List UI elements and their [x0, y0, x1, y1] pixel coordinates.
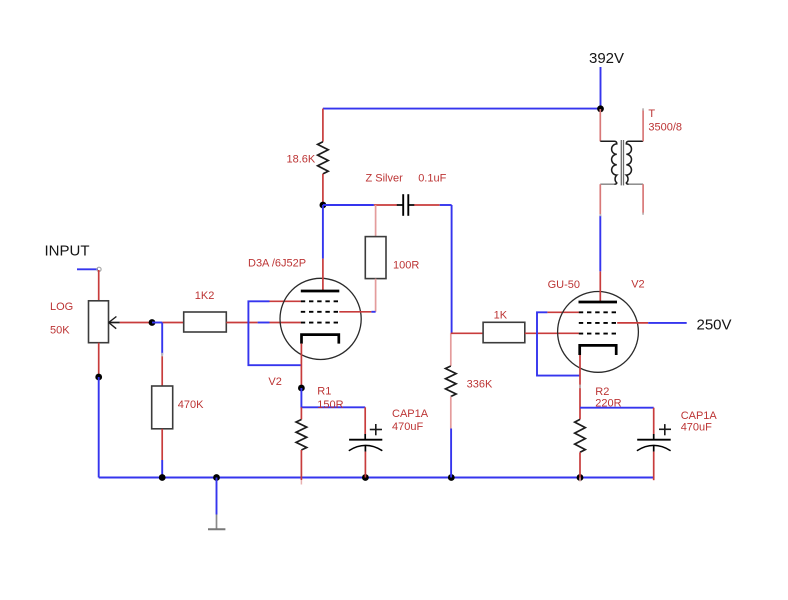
wire 100R top lead (pink) — [375, 205, 377, 237]
wire transformer primary top lead (red) — [599, 109, 601, 141]
tube V2 GU-50 envelope — [558, 292, 639, 373]
wire transformer secondary bottom lead (red) — [642, 184, 644, 214]
wire grid1 lead tube2 (red) — [547, 311, 579, 313]
capacitor CAP1A 470uF stage1 plates — [349, 439, 382, 441]
svg-text:1K: 1K — [494, 309, 508, 321]
tube V2 GU-50 feedback loop wire (blue) — [537, 312, 580, 375]
wire 1K right lead to grid (red) — [525, 332, 579, 334]
wire node A to cap (blue then red) — [323, 204, 374, 206]
wire right coupling drop (blue) — [451, 205, 453, 333]
tube V2 GU-50 anode bar — [579, 301, 618, 304]
capacitor CAP1A 470uF stage2 plates — [637, 439, 671, 441]
wire cathode2 branch (blue) — [580, 407, 654, 409]
svg-text:470uF: 470uF — [392, 421, 423, 433]
resistor 470K body — [152, 386, 173, 429]
svg-text:470uF: 470uF — [681, 422, 712, 434]
wire 1K left lead (red) — [451, 332, 483, 334]
wire 18.6K bottom lead (red) — [322, 174, 324, 205]
svg-text:V2: V2 — [631, 278, 644, 290]
junction pot bottom node — [95, 374, 102, 381]
tube V2 D3A grid g2 — [301, 311, 340, 313]
wire cap1 bottom lead (red) — [364, 452, 366, 478]
wire top rail B+ (blue) — [323, 108, 601, 110]
wire cap2 bottom lead (red) — [653, 452, 655, 481]
svg-text:LOG: LOG — [50, 301, 73, 313]
wire-end tick mark C — [642, 108, 644, 110]
wire transformer secondary top lead (red) — [642, 109, 644, 142]
terminal input open circle — [97, 267, 101, 271]
svg-text:CAP1A: CAP1A — [681, 410, 718, 422]
svg-text:Z Silver: Z Silver — [366, 173, 404, 185]
svg-text:1K2: 1K2 — [195, 290, 215, 302]
transformer T primary bottom connector — [600, 183, 614, 185]
tube V2 GU-50 grid g3 — [579, 333, 617, 335]
svg-text:R2: R2 — [595, 386, 609, 398]
wire R2 bottom lead (red) — [579, 452, 581, 477]
svg-text:GU-50: GU-50 — [548, 279, 580, 291]
wire 250V output lead (red then blue) — [617, 322, 648, 324]
resistor 1K2 body — [184, 312, 227, 332]
resistor 100R body — [365, 237, 386, 279]
wire plate2 lead (red) — [599, 271, 601, 302]
wire 336K top lead (pink) — [450, 333, 452, 366]
potentiometer LOG 50K body — [89, 301, 109, 343]
resistor 1K body — [483, 322, 525, 342]
tube V2 D3A envelope — [280, 278, 361, 359]
svg-text:18.6K: 18.6K — [287, 153, 316, 165]
wire wiper node to 1K2 (blue jog then red) — [152, 322, 162, 324]
wire 470K branch drop (blue then red) — [161, 323, 163, 355]
wire plate1 drop (blue then red) — [322, 205, 324, 259]
wire anode output lead (red then blue jog) — [339, 311, 371, 313]
transformer T secondary winding — [626, 141, 643, 184]
capacitor Z Silver 0.1uF plates — [402, 194, 404, 216]
transformer T primary winding — [600, 141, 617, 184]
svg-text:470K: 470K — [178, 399, 204, 411]
wire 470K bottom lead (red then blue) — [161, 429, 163, 460]
wire transformer primary bottom lead (red then blue) — [599, 184, 601, 215]
svg-text:INPUT: INPUT — [45, 243, 90, 260]
junction rail ground — [213, 474, 220, 481]
junction plate node A — [320, 202, 327, 209]
junction rail R2 — [577, 474, 584, 481]
svg-text:T: T — [648, 108, 655, 120]
svg-text:V2: V2 — [268, 376, 281, 388]
junction rail 336K — [448, 474, 455, 481]
wire left ground drop (blue) — [98, 377, 100, 478]
junction 392V node — [597, 105, 604, 112]
wire R1 top lead (red) — [300, 407, 302, 419]
tube V2 D3A cathode — [302, 335, 339, 344]
wire grid1 lead tube1 (red) — [270, 300, 301, 302]
junction rail cap1 — [362, 474, 369, 481]
tube V2 D3A grid g1 — [301, 300, 340, 302]
wire wiper line (red) — [120, 322, 152, 324]
svg-text:0.1uF: 0.1uF — [418, 173, 446, 185]
wire ground rail (blue) — [99, 477, 654, 479]
wire pot top lead (red) — [98, 270, 100, 301]
tube V2 D3A feedback loop wire (blue) — [248, 301, 301, 365]
resistor 18.6K zigzag — [318, 142, 329, 174]
svg-text:50K: 50K — [50, 325, 70, 337]
resistor R1 150R zigzag — [296, 420, 307, 451]
transformer T core — [620, 140, 622, 185]
tube V2 D3A anode bar — [301, 290, 340, 293]
capacitor CAP1A stage1 plus sign — [370, 429, 382, 431]
junction rail 470K — [159, 474, 166, 481]
capacitor CAP1A 470uF stage1 top lead (red) — [364, 407, 366, 434]
svg-text:100R: 100R — [393, 260, 419, 272]
svg-text:R1: R1 — [317, 386, 331, 398]
wire R1 bottom lead (red) — [300, 450, 302, 480]
svg-text:D3A /6J52P: D3A /6J52P — [248, 258, 306, 270]
junction cathode1 node — [298, 385, 305, 392]
wire ground stem (blue then grey) — [216, 478, 218, 515]
wire-end tick mark B — [579, 385, 581, 389]
wire 100R bottom lead (pink) — [375, 279, 377, 312]
wire cathode2 lead (red) — [579, 355, 581, 419]
tube V2 GU-50 grid g1 — [579, 311, 617, 313]
potentiometer wiper arrow — [109, 322, 120, 324]
junction wiper node — [149, 319, 156, 326]
svg-text:150R: 150R — [317, 399, 343, 411]
tube V2 GU-50 cathode — [580, 345, 617, 355]
resistor R2 220R zigzag — [575, 419, 586, 452]
wire-end tick mark E — [599, 214, 601, 216]
svg-text:CAP1A: CAP1A — [392, 408, 429, 420]
transformer T secondary bottom connector — [629, 183, 644, 185]
capacitor CAP1A 470uF stage2 top lead (red) — [653, 408, 655, 435]
wire-end tick mark D — [642, 213, 644, 215]
ground symbol bar — [208, 528, 225, 530]
svg-text:336K: 336K — [467, 378, 493, 390]
wire cap right lead (red then blue) — [409, 204, 415, 206]
resistor 336K zigzag — [446, 366, 457, 397]
tube V2 D3A grid g3 — [301, 322, 340, 324]
svg-text:250V: 250V — [697, 317, 732, 334]
svg-text:3500/8: 3500/8 — [648, 121, 682, 133]
wire-end tick mark A — [161, 353, 163, 357]
capacitor CAP1A stage2 plus sign — [659, 428, 671, 430]
wire 18.6K top lead (red) — [322, 109, 324, 142]
wire pot bottom lead (red) — [98, 343, 100, 377]
wire cathode1 branch (blue) — [301, 388, 365, 407]
wire 392V drop (blue) — [600, 67, 602, 109]
wire 1K2 right lead (red, blue jog, red to grid) — [226, 322, 257, 324]
wire 336K bottom lead (pink then blue) — [450, 397, 452, 429]
tube V2 GU-50 grid g2 — [579, 322, 617, 324]
wire cathode1 lead (red) — [300, 344, 302, 388]
wire input stub (blue) — [77, 268, 98, 270]
svg-text:392V: 392V — [589, 50, 624, 67]
